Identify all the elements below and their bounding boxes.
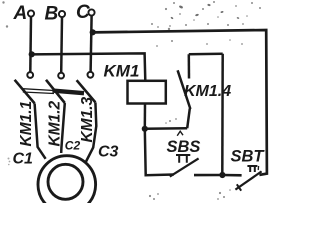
contact KM1.3 fixed terminal circle (88, 72, 94, 78)
svg-text:KM1: KM1 (104, 62, 140, 81)
mechanical linkage bar (thick segment) (53, 91, 85, 94)
label KM1.4 (184, 83, 231, 100)
contact KM1.4 blade (178, 70, 191, 109)
svg-text:KM1.3: KM1.3 (79, 96, 96, 142)
motor M outer circle (38, 156, 96, 214)
wire phase A vertical (29, 17, 32, 72)
button SBS actuator (176, 155, 190, 163)
noise tick right of SBT actuator (257, 166, 259, 170)
node A terminal circle (28, 10, 34, 16)
wire SBS right lead (194, 174, 223, 177)
button SBT blade (235, 171, 261, 189)
wire KM1.4 loop top (189, 53, 223, 56)
label KM1.2 (rotated) (47, 100, 64, 146)
button SBT blade end tick (237, 184, 241, 190)
wire C control bus to SBT (right edge) (93, 30, 267, 175)
coil KM1 rectangle (128, 81, 166, 104)
wire phase B vertical (60, 17, 63, 72)
label A (13, 3, 28, 24)
label KM1.1 (rotated) (18, 101, 35, 147)
scan noise specks (2, 1, 261, 200)
label SBT (231, 148, 266, 166)
node B terminal circle (59, 11, 65, 17)
svg-text:B: B (45, 4, 59, 25)
node junction dot below coil (142, 126, 148, 132)
label KM1 (coil) (104, 62, 140, 81)
button SBS blade (170, 158, 199, 176)
wire node to SBS (down and right) (145, 129, 174, 175)
label C1 (13, 151, 34, 168)
wire phase C vertical (91, 16, 92, 72)
left edge faint specks (8, 158, 11, 166)
svg-text:C2: C2 (65, 139, 81, 153)
contact KM1.1 fixed terminal circle (27, 72, 33, 78)
label KM1.3 (rotated) (79, 96, 96, 142)
wire C1 from KM1.1 to motor (35, 103, 46, 158)
svg-text:C1: C1 (13, 151, 34, 168)
label SBS (167, 138, 201, 156)
wire coil KM1 bottom lead (144, 104, 147, 129)
svg-text:KM1.1: KM1.1 (18, 101, 35, 147)
svg-text:KM1.4: KM1.4 (184, 83, 231, 100)
button SBT actuator (247, 166, 257, 172)
contact KM1.1 blade (15, 80, 35, 104)
node junction dot on C (90, 29, 96, 35)
svg-text:A: A (13, 3, 28, 24)
mechanical linkage bar (double line) (23, 89, 54, 94)
contact KM1.3 blade (77, 80, 96, 102)
label B (45, 4, 59, 25)
wire C3 from KM1.3 to motor (86, 102, 97, 162)
contact KM1.2 fixed terminal circle (58, 73, 64, 79)
node junction dot SBS/SBT (219, 172, 225, 178)
wire node to SBT left lead (222, 174, 241, 177)
noise caret above SBS (177, 131, 183, 136)
label C2 (65, 139, 81, 153)
wire A control bus to coil KM1 (32, 53, 146, 81)
motor M inner circle (48, 164, 83, 199)
svg-text:SBT: SBT (231, 148, 266, 166)
wire C2 from KM1.2 to motor (61, 103, 65, 153)
wire KM1.4 loop right vertical (221, 54, 224, 175)
node junction dot on A (29, 51, 35, 57)
wire KM1.4 top lead (188, 54, 191, 78)
contact KM1.2 blade (46, 80, 65, 103)
svg-text:C: C (76, 2, 90, 23)
label C (76, 2, 90, 23)
scan noise blobs top right (170, 4, 239, 20)
wire node to KM1.4 bottom (145, 127, 187, 130)
label C3 (98, 144, 119, 161)
svg-text:SBS: SBS (167, 138, 201, 156)
svg-text:C3: C3 (98, 144, 119, 161)
node C terminal circle (88, 9, 94, 15)
svg-text:KM1.2: KM1.2 (47, 100, 64, 146)
wire KM1.4 bottom lead (187, 109, 190, 129)
